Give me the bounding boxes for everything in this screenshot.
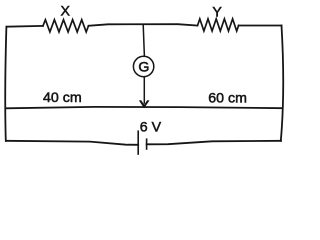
wire right side <box>281 26 283 141</box>
resistor X <box>43 20 89 32</box>
svg-text:6 V: 6 V <box>140 119 162 135</box>
jockey arrowhead <box>139 100 150 108</box>
battery long plate <box>137 131 139 154</box>
svg-text:X: X <box>60 4 70 20</box>
svg-text:40 cm: 40 cm <box>43 90 82 106</box>
bridge wire (node A to node B) <box>6 107 282 108</box>
battery short plate <box>146 139 148 149</box>
wire left side <box>5 27 6 141</box>
svg-text:60 cm: 60 cm <box>208 90 247 106</box>
galvanometer branch wire lower <box>143 77 145 103</box>
wire top-right segment <box>239 25 282 27</box>
galvanometer U1 circle <box>133 56 153 76</box>
wire bottom-right segment <box>147 141 281 145</box>
wire bottom-left segment <box>6 141 138 145</box>
galvanometer branch wire upper <box>143 25 144 57</box>
wire top-middle segment <box>89 24 198 26</box>
svg-text:Y: Y <box>212 4 222 20</box>
svg-text:G: G <box>138 60 149 76</box>
wire top-left segment <box>7 25 44 28</box>
resistor Y <box>198 19 239 31</box>
